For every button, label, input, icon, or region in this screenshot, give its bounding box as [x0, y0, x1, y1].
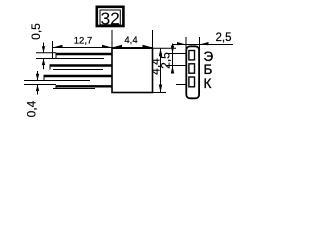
- svg-text:2,5: 2,5: [216, 32, 232, 44]
- svg-text:32: 32: [100, 8, 119, 28]
- svg-text:0,4: 0,4: [25, 100, 39, 117]
- svg-text:4,4: 4,4: [124, 35, 137, 46]
- svg-text:12,7: 12,7: [74, 36, 93, 47]
- svg-text:Б: Б: [204, 62, 213, 77]
- svg-text:К: К: [204, 76, 212, 91]
- svg-text:0,5: 0,5: [29, 23, 43, 40]
